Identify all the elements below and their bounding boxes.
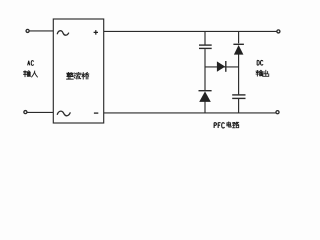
glyph 电 (of PFC电路) (227, 122, 231, 127)
glyph 桥 (of 整流桥) (82, 72, 89, 79)
wire right branch upper segment (238, 31, 240, 43)
AC symbol bottom (sine) (57, 111, 70, 116)
capacitor C1 plates (199, 44, 212, 46)
glyph 整 (of 整流桥) (67, 72, 74, 79)
wire AC bottom input (27, 111, 53, 113)
label AC (28, 61, 34, 66)
CJK glyphs drawn as strokes; each glyph designed on 100x100 grid (24, 70, 269, 127)
wire left branch upper segment (204, 31, 206, 44)
wire right branch lower segment (238, 99, 240, 113)
glyph 路 (of PFC电路) (233, 122, 239, 128)
label PFC (latin part) (214, 123, 224, 128)
AC symbol top (sine) (57, 31, 69, 35)
capacitor C2 plates (232, 94, 245, 96)
diode D3 cathode bar (225, 61, 227, 72)
glyph 流 (of 整流桥) (74, 72, 81, 78)
diode D2 triangle (points up) (199, 91, 211, 102)
minus sign (- terminal of bridge) (94, 112, 98, 114)
wire right branch middle segment (238, 54, 240, 94)
rectifier bridge box (53, 19, 103, 123)
glyph 输 (of 输入) (24, 71, 30, 77)
diode D1 cathode bar (233, 43, 244, 45)
diode D1 triangle (points up) (234, 45, 244, 55)
wire DC+ top rail (104, 30, 277, 32)
wire middle link (205, 66, 239, 68)
diode D3 triangle (points right) (217, 61, 225, 71)
label DC (257, 60, 263, 65)
terminal DC bottom-right (276, 111, 279, 114)
diode D2 cathode bar (199, 90, 212, 92)
wire left branch lower segment (204, 102, 206, 113)
glyph 输 (of 输出) (256, 70, 262, 76)
glyph 出 (of 输出) (263, 70, 269, 76)
glyph 入 (of 输入) (32, 71, 38, 77)
terminal AC bottom-left (24, 111, 27, 114)
wire DC- bottom rail (104, 112, 276, 114)
wire left branch middle segment (204, 49, 206, 90)
wire AC top input (29, 30, 53, 32)
terminal DC top-right (277, 30, 280, 33)
terminal AC top-left (26, 29, 29, 32)
plus sign (+ terminal of bridge) (94, 30, 98, 34)
